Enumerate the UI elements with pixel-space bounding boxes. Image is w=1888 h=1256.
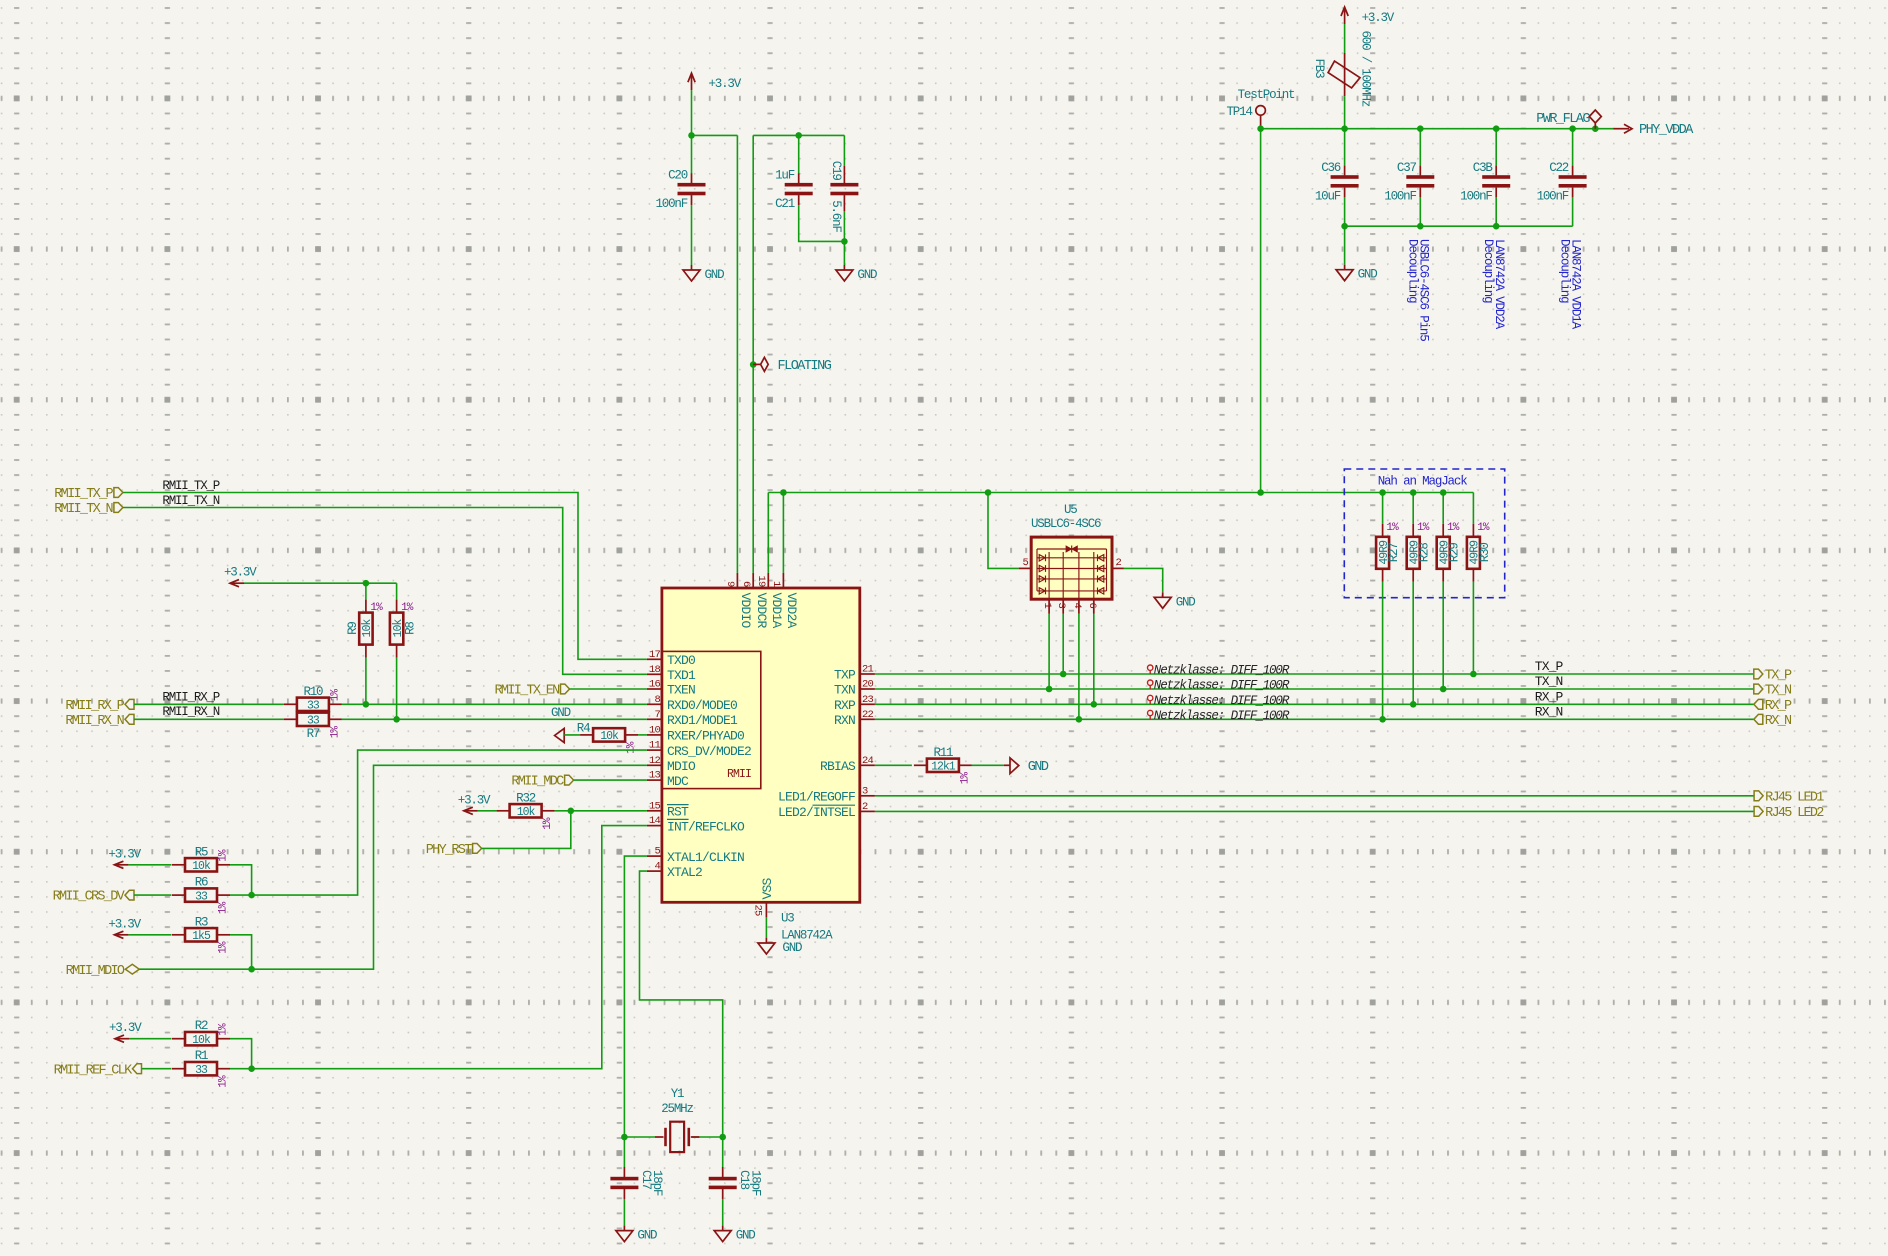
svg-text:1%: 1%	[1447, 522, 1460, 534]
note Decoupling USBLC6-4SC6 Pin5	[1405, 239, 1430, 341]
svg-text:1%: 1%	[329, 726, 341, 739]
wire LED2 wire	[875, 810, 1754, 812]
resistor R6 33	[172, 876, 230, 915]
junction C37 bottom	[1417, 223, 1424, 230]
capacitor C18 18pF	[709, 1167, 763, 1199]
U3 pin 5 XTAL1/CLKIN	[647, 846, 744, 865]
U3 pin 19 VDD1A	[755, 573, 784, 629]
svg-text:GND: GND	[857, 268, 877, 282]
svg-text:C22: C22	[1549, 161, 1569, 175]
wire C20 to GND	[691, 205, 693, 265]
wire R8 top wire	[396, 583, 398, 599]
svg-text:VDDIO: VDDIO	[738, 593, 753, 629]
svg-text:LAN8742A: LAN8742A	[781, 929, 833, 943]
wire R4 left wire	[564, 734, 580, 736]
svg-text:USBLC6-4SC6: USBLC6-4SC6	[1031, 517, 1101, 531]
wire C36 bottom lead	[1344, 197, 1346, 226]
svg-text:+3.3V: +3.3V	[224, 566, 257, 580]
U3 pin 17 TXD0	[647, 649, 695, 668]
resistor R32 10k	[497, 791, 555, 830]
svg-text:PHY_RST: PHY_RST	[426, 843, 472, 858]
svg-text:17: 17	[649, 649, 661, 661]
junction R28 bottom	[1410, 701, 1417, 708]
U3 pin 21 TXP	[834, 664, 875, 683]
power +3.3V FB3 top	[1341, 7, 1395, 25]
svg-text:10k: 10k	[517, 806, 536, 819]
power +3.3V R5	[108, 847, 141, 868]
svg-text:TX_P: TX_P	[1535, 659, 1564, 674]
junction pin1-TXN	[1046, 686, 1053, 693]
svg-text:2: 2	[862, 801, 868, 813]
svg-text:LAN8742A VDD2A: LAN8742A VDD2A	[1492, 239, 1506, 330]
U3 pin 18 TXD1	[647, 664, 696, 683]
svg-text:FLOATING: FLOATING	[778, 359, 832, 374]
svg-text:RST: RST	[667, 805, 689, 820]
global label TX_P	[1754, 669, 1792, 684]
svg-text:R6: R6	[195, 876, 208, 890]
wire RMII_TX_P to TXD0	[123, 493, 647, 660]
svg-text:C37: C37	[1397, 161, 1417, 175]
wire RX_N to RXD1	[342, 718, 647, 720]
netclass directive Netzklasse DIFF_100R	[1148, 679, 1290, 693]
wire U5 pin1 drop	[1048, 614, 1050, 690]
svg-text:10k: 10k	[192, 860, 211, 873]
svg-text:R8: R8	[404, 622, 418, 635]
svg-text:TX_N: TX_N	[1535, 674, 1563, 689]
wire PHY_VDDA top rail	[1261, 128, 1614, 130]
U3 pin 3 LED1/REGOFF	[778, 785, 875, 804]
global label RJ45 LED2	[1754, 806, 1824, 821]
junction pin6-RXP	[1091, 701, 1098, 708]
global label RMII_RX_N	[65, 714, 134, 729]
resistor R7 33	[284, 713, 342, 741]
wire C3B top lead	[1495, 129, 1497, 166]
wire CRS_DV in	[134, 894, 172, 896]
svg-text:RMII_TX_P: RMII_TX_P	[162, 479, 219, 493]
wire TXP line	[875, 673, 1754, 675]
U3 pin 7 RXD1/MODE1	[647, 709, 738, 728]
capacitor C20 100nF	[655, 169, 705, 212]
wire U5 pin3 drop	[1062, 614, 1064, 675]
wire +3.3V to FB3	[1344, 24, 1346, 53]
U3 pin 11 CRS_DV/MODE2	[647, 740, 751, 759]
svg-text:R4: R4	[577, 721, 590, 735]
wire VDD2A vertical	[782, 493, 784, 573]
wire R5 to CRS_DV	[230, 865, 252, 895]
svg-text:18: 18	[649, 664, 661, 676]
wire RXN line	[875, 718, 1754, 720]
power flag PWR_FLAG	[1536, 110, 1601, 129]
junction R30 bottom	[1470, 671, 1477, 678]
U3 pin 14 INT/REFCLKO	[647, 815, 745, 834]
crystal Y1 25MHz	[655, 1087, 699, 1152]
svg-text:+3.3V: +3.3V	[458, 793, 491, 807]
svg-text:RMII_TX_N: RMII_TX_N	[162, 494, 219, 508]
svg-text:1%: 1%	[218, 1023, 230, 1036]
svg-text:RMII_MDC: RMII_MDC	[511, 775, 564, 790]
junction pin4-RXN	[1076, 716, 1083, 723]
svg-text:6: 6	[740, 581, 752, 587]
svg-text:R7: R7	[307, 727, 320, 741]
U5 pin 3	[1055, 599, 1067, 613]
svg-text:1%: 1%	[370, 602, 383, 614]
wire R30 bottom wire	[1472, 582, 1474, 674]
global label RMII_TX_N	[54, 502, 123, 517]
svg-text:Netzklasse: DIFF_100R: Netzklasse: DIFF_100R	[1154, 694, 1290, 708]
svg-text:33: 33	[195, 1064, 208, 1077]
svg-text:C20: C20	[668, 169, 688, 183]
svg-text:RMII_TX_P: RMII_TX_P	[54, 487, 113, 502]
svg-text:RMII_CRS_DV: RMII_CRS_DV	[53, 890, 126, 905]
U3 pin 16 TXEN	[647, 679, 695, 698]
svg-text:20: 20	[862, 679, 874, 691]
resistor R11 12k1	[914, 746, 972, 785]
wire R3 left	[128, 934, 171, 936]
svg-text:U3: U3	[781, 912, 794, 926]
wire C17 top	[623, 1137, 625, 1167]
svg-text:RMII_RX_P: RMII_RX_P	[65, 699, 124, 714]
wire RMII_RX_N in	[134, 718, 284, 720]
svg-text:10k: 10k	[600, 730, 619, 743]
svg-text:12: 12	[649, 755, 661, 767]
svg-text:13: 13	[649, 770, 661, 782]
wire R3 down	[230, 935, 252, 969]
svg-text:Nah an MagJack: Nah an MagJack	[1378, 475, 1468, 489]
svg-text:R28: R28	[1418, 543, 1432, 563]
wire LED1 wire	[875, 795, 1754, 797]
wire R5 left	[128, 864, 171, 866]
svg-text:11: 11	[649, 740, 661, 752]
svg-text:8: 8	[654, 694, 660, 706]
note Decoupling LAN8742A VDD2A	[1481, 239, 1506, 330]
svg-text:R5: R5	[195, 845, 208, 859]
svg-text:RMII_TX_N: RMII_TX_N	[54, 502, 113, 517]
svg-text:1uF: 1uF	[775, 169, 795, 183]
resistor R2 10k	[172, 1019, 230, 1047]
U3 pin 12 MDIO	[647, 755, 696, 774]
svg-text:10uF: 10uF	[1315, 190, 1341, 204]
svg-text:TestPoint: TestPoint	[1238, 88, 1295, 102]
svg-text:18pF: 18pF	[748, 1170, 762, 1196]
wire +3.3V to C20	[691, 90, 693, 173]
svg-text:R10: R10	[303, 685, 323, 699]
wire R29 bottom wire	[1442, 582, 1444, 689]
U5 pin 5	[1019, 557, 1031, 569]
resistor R9 10k	[346, 600, 383, 658]
wire C36 top lead	[1344, 129, 1346, 166]
svg-text:10: 10	[649, 724, 661, 736]
svg-text:MDIO: MDIO	[667, 759, 696, 774]
svg-text:+3.3V: +3.3V	[108, 847, 141, 861]
junction TP14 junction	[1257, 125, 1264, 132]
wire R28 top wire	[1412, 493, 1414, 524]
svg-text:RMII_MDIO: RMII_MDIO	[66, 964, 125, 979]
svg-text:RMII_TX_EN: RMII_TX_EN	[494, 684, 560, 699]
svg-text:14: 14	[649, 815, 661, 827]
wire VSS to GND	[765, 917, 767, 938]
ground C18	[714, 1226, 755, 1243]
svg-text:1%: 1%	[218, 1075, 230, 1088]
svg-text:R32: R32	[516, 791, 536, 805]
junction R5 join	[248, 892, 255, 899]
svg-text:23: 23	[862, 694, 874, 706]
wire crystal right lead wire	[692, 1136, 723, 1138]
wire +3.3V pullup rail	[244, 582, 397, 584]
capacitor C19 5.6nF	[829, 161, 859, 233]
svg-text:+3.3V: +3.3V	[1362, 11, 1395, 25]
junction R29 top	[1440, 489, 1447, 496]
wire MDIO to pin12	[139, 765, 647, 969]
svg-text:RJ45 LED1: RJ45 LED1	[1765, 790, 1824, 805]
U5 internal TVS diodes	[1037, 546, 1107, 600]
U5 pin 2	[1112, 557, 1124, 569]
wire MDC to pin13	[574, 779, 647, 781]
svg-text:Y1: Y1	[671, 1087, 684, 1101]
svg-text:C3B: C3B	[1473, 161, 1494, 175]
svg-text:1%: 1%	[1417, 522, 1430, 534]
junction C22 top	[1569, 125, 1576, 132]
U5 pin 6	[1086, 599, 1098, 613]
svg-text:RXD0/MODE0: RXD0/MODE0	[667, 698, 737, 713]
svg-text:XTAL2: XTAL2	[667, 865, 702, 880]
U3 pin 9 VDDIO	[724, 573, 753, 629]
svg-text:CRS_DV/MODE2: CRS_DV/MODE2	[667, 744, 751, 759]
svg-text:100nF: 100nF	[1460, 190, 1492, 204]
svg-text:5: 5	[1022, 557, 1028, 569]
svg-text:Netzklasse: DIFF_100R: Netzklasse: DIFF_100R	[1154, 679, 1290, 693]
svg-text:19: 19	[755, 575, 767, 587]
junction R3 join	[248, 966, 255, 973]
power +3.3V R32	[458, 793, 491, 814]
U3 pin 1 VDD2A	[770, 573, 799, 629]
wire U5 pin2 to GND	[1124, 568, 1163, 592]
svg-text:1%: 1%	[218, 901, 230, 914]
ground decoupling bank	[1336, 265, 1377, 282]
svg-text:VDD2A: VDD2A	[784, 593, 799, 629]
svg-text:R1: R1	[195, 1049, 208, 1063]
svg-text:16: 16	[649, 679, 661, 691]
svg-text:RX_P: RX_P	[1535, 689, 1564, 704]
svg-text:10k: 10k	[361, 619, 374, 638]
wire U5 pin4 drop	[1078, 614, 1080, 720]
wire C18 to GND	[722, 1199, 724, 1226]
wire R9 bottom	[365, 658, 367, 705]
U3 pin 6 VDDCR	[740, 573, 769, 629]
svg-text:RMII: RMII	[727, 768, 751, 781]
U3 pin 8 RXD0/MODE0	[647, 694, 737, 713]
junction FB3 junction	[1341, 125, 1348, 132]
power +3.3V R3	[108, 917, 141, 938]
wire RMII_TX_EN to TXEN	[570, 688, 647, 690]
netclass directive Netzklasse DIFF_100R	[1148, 709, 1290, 723]
svg-text:1%: 1%	[329, 689, 341, 702]
svg-text:33: 33	[307, 700, 320, 713]
svg-text:1%: 1%	[1386, 522, 1399, 534]
wire VDDCR to C19 top	[753, 134, 844, 136]
global label RJ45 LED1	[1754, 790, 1824, 805]
svg-text:VDD1A: VDD1A	[769, 593, 784, 629]
svg-text:1: 1	[1041, 603, 1053, 609]
svg-text:1%: 1%	[959, 772, 971, 785]
svg-text:100nF: 100nF	[1384, 190, 1416, 204]
hierarchical label PHY_VDDA	[1613, 123, 1694, 138]
power +3.3V R9R8	[224, 566, 257, 587]
wire +3.3V to VDDIO	[692, 134, 738, 136]
svg-text:18pF: 18pF	[650, 1170, 664, 1196]
svg-text:RMII_RX_P: RMII_RX_P	[162, 691, 219, 705]
U3 pin 22 RXN	[834, 709, 875, 728]
svg-text:LED2/INTSEL: LED2/INTSEL	[778, 805, 855, 820]
wire TP column	[1260, 129, 1262, 493]
svg-text:GND: GND	[1358, 268, 1378, 282]
svg-text:25MHz: 25MHz	[661, 1102, 693, 1116]
wire crystal left lead wire	[624, 1136, 655, 1138]
wire R27 bottom wire	[1382, 582, 1384, 720]
svg-text:1k5: 1k5	[192, 930, 211, 943]
junction R29 bottom	[1440, 686, 1447, 693]
svg-text:6: 6	[1086, 603, 1098, 609]
wire decoupling bottom rail	[1345, 225, 1573, 227]
global label RMII_TX_EN	[494, 684, 569, 699]
junction crystal right	[719, 1134, 726, 1141]
resistor R4 10k	[577, 721, 638, 754]
wire RBIAS wire	[875, 764, 912, 766]
svg-text:R30: R30	[1478, 543, 1492, 563]
wire R8 bottom	[396, 658, 398, 720]
svg-text:RX_P: RX_P	[1765, 699, 1792, 714]
svg-text:LAN8742A VDD1A: LAN8742A VDD1A	[1569, 239, 1583, 330]
global label RMII_MDC	[511, 775, 573, 790]
junction PHY_VDDA testpoint column	[1257, 489, 1264, 496]
svg-text:GND: GND	[1176, 595, 1196, 609]
wire RMII_RX_P in	[134, 703, 284, 705]
svg-text:25: 25	[752, 905, 764, 917]
U5 pin 4	[1071, 599, 1083, 613]
svg-text:100nF: 100nF	[655, 197, 687, 211]
resistor R28 49R9	[1407, 522, 1432, 582]
svg-text:TXN: TXN	[834, 683, 855, 698]
svg-text:1%: 1%	[626, 741, 638, 754]
svg-text:Netzklasse: DIFF_100R: Netzklasse: DIFF_100R	[1154, 709, 1290, 723]
wire XTAL2 to crystal	[640, 871, 723, 1137]
wire VDD1A vertical	[767, 493, 769, 573]
svg-text:+3.3V: +3.3V	[109, 1021, 142, 1035]
ground C19-C21	[836, 265, 877, 282]
capacitor C22 100nF	[1537, 161, 1587, 204]
wire C22 bottom lead	[1572, 197, 1574, 226]
svg-text:R11: R11	[933, 746, 953, 760]
wire RX_P to RXD0	[342, 703, 647, 705]
wire TXN line	[875, 688, 1754, 690]
wire R32 to RST	[555, 810, 647, 812]
svg-text:MDC: MDC	[667, 774, 689, 789]
global label RMII_REF_CLK	[54, 1063, 142, 1078]
junction FLOATING tap	[750, 361, 757, 368]
wire R4 to RXER	[638, 734, 647, 736]
svg-text:1%: 1%	[401, 602, 414, 614]
wire C37 bottom lead	[1419, 197, 1421, 226]
svg-text:Netzklasse: DIFF_100R: Netzklasse: DIFF_100R	[1154, 664, 1290, 678]
svg-text:+3.3V: +3.3V	[108, 917, 141, 931]
wire R11 to GND label	[972, 764, 1004, 766]
svg-text:RXER/PHYAD0: RXER/PHYAD0	[667, 729, 744, 744]
wire C3B bottom lead	[1495, 197, 1497, 226]
svg-text:24: 24	[862, 755, 874, 767]
junction C3B bottom	[1493, 223, 1500, 230]
wire R2 left	[129, 1038, 172, 1040]
ground C17	[616, 1226, 657, 1243]
global label RMII_TX_P	[54, 487, 123, 502]
wire R9 top wire	[365, 583, 367, 599]
svg-text:600 / 100MHz: 600 / 100MHz	[1359, 31, 1373, 107]
resistor R29 49R9	[1437, 522, 1462, 582]
svg-text:RBIAS: RBIAS	[820, 759, 856, 774]
wire C21 bottom	[799, 205, 845, 241]
global label RX_P	[1754, 699, 1792, 714]
svg-text:R2: R2	[195, 1019, 208, 1033]
U3 pin 15 RST	[647, 800, 689, 819]
power flag FLOATING	[753, 357, 832, 374]
svg-text:1%: 1%	[218, 941, 230, 954]
wire C17 to GND	[623, 1199, 625, 1226]
global label PHY_RST	[426, 843, 482, 858]
junction VDD2A tap	[780, 489, 787, 496]
svg-text:PHY_VDDA: PHY_VDDA	[1639, 123, 1694, 138]
U5 pin 1	[1041, 599, 1053, 613]
capacitor C36 10uF	[1315, 161, 1359, 204]
IC U5 USBLC6-4SC6 body	[1031, 537, 1112, 599]
svg-text:21: 21	[862, 664, 874, 676]
svg-text:R3: R3	[195, 915, 208, 929]
svg-text:3: 3	[1055, 603, 1067, 609]
capacitor C17 18pF	[610, 1167, 664, 1199]
resistor R5 10k	[172, 845, 230, 873]
global label RMII_MDIO	[66, 964, 140, 979]
ground U3 VSS	[758, 938, 802, 955]
svg-text:R29: R29	[1448, 543, 1462, 563]
svg-text:5.6nF: 5.6nF	[829, 200, 843, 232]
U5 reference U5 USBLC6-4SC6	[1031, 503, 1101, 531]
resistor R30 49R9	[1467, 522, 1492, 582]
svg-text:U5: U5	[1064, 503, 1077, 517]
svg-text:LED1/REGOFF: LED1/REGOFF	[778, 790, 855, 805]
wire CRS_DV to pin11	[230, 750, 647, 895]
junction C37 top	[1417, 125, 1424, 132]
note Decoupling LAN8742A VDD1A	[1558, 239, 1583, 330]
junction R28 top	[1410, 489, 1417, 496]
svg-text:+3.3V: +3.3V	[709, 77, 742, 91]
svg-text:VDDCR: VDDCR	[754, 593, 769, 629]
wire RXP line	[875, 703, 1754, 705]
junction R2 join	[248, 1065, 255, 1072]
global label RX_N	[1754, 714, 1792, 729]
ferrite bead FB3 600/100MHz	[1312, 31, 1372, 107]
wire R30 top wire	[1472, 493, 1474, 524]
wire C37 top lead	[1419, 129, 1421, 166]
svg-text:RMII_REF_CLK: RMII_REF_CLK	[54, 1063, 133, 1078]
svg-text:2: 2	[1116, 557, 1122, 569]
junction U5 pin5 tap	[985, 489, 992, 496]
wire C21 top lead	[798, 135, 800, 173]
resistor R10 33	[284, 685, 342, 713]
svg-text:GND: GND	[637, 1229, 657, 1243]
svg-text:RXD1/MODE1: RXD1/MODE1	[667, 713, 738, 728]
svg-text:TXD0: TXD0	[667, 653, 695, 668]
svg-text:C21: C21	[775, 197, 795, 211]
ground C20	[683, 265, 724, 282]
svg-text:1%: 1%	[542, 817, 554, 830]
svg-text:GND: GND	[1028, 760, 1049, 775]
